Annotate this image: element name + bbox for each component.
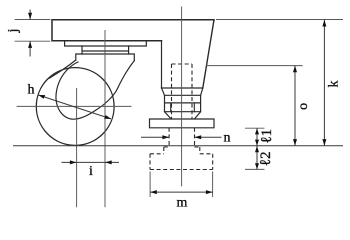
l1 dimension (256, 128, 258, 146)
raceway layer B (82, 46, 129, 54)
o extension line (206, 65, 303, 67)
boss step (164, 147, 200, 154)
hex nut flats (171, 103, 195, 112)
k extension line (216, 19, 343, 21)
foot pad (150, 154, 213, 170)
stud below flange (169, 128, 194, 147)
stem centerline (181, 7, 183, 187)
extension lines (15, 20, 343, 198)
wheel horizontal centerline (17, 105, 132, 107)
o dimension (294, 66, 296, 146)
svg-text:k: k (327, 81, 342, 88)
hex nut body (165, 95, 201, 111)
leg left edge (161, 41, 163, 88)
m extension lines (150, 172, 213, 198)
svg-text:j: j (6, 29, 21, 34)
h dimension diagonal arrow (38, 95, 111, 119)
swivel plate layer A (65, 41, 147, 46)
dimension lines with arrows (28, 10, 326, 195)
top mounting plate (52, 20, 214, 41)
l1 extension line (245, 127, 265, 129)
taper collar (165, 112, 201, 119)
stem collar trapezoid under leg (162, 88, 203, 95)
n dimension (141, 136, 222, 138)
fork left outer curve (49, 60, 76, 78)
svg-text:n: n (224, 131, 231, 146)
swivel axis centerline (104, 30, 106, 207)
threaded hole in leg (172, 64, 193, 119)
l2 dimension (256, 146, 258, 169)
j dimension (29, 10, 31, 57)
svg-text:m: m (177, 196, 188, 211)
ground line (13, 145, 343, 147)
centerlines (17, 7, 182, 208)
l2 extension line (245, 168, 265, 170)
fork spiral outline (56, 61, 134, 120)
leg right slanted edge (203, 20, 214, 88)
dashed hidden lines (150, 64, 213, 170)
i dimension (62, 161, 120, 163)
wheel circle (36, 68, 114, 146)
svg-text:ℓ1: ℓ1 (259, 129, 275, 144)
wheel vertical centerline (76, 88, 78, 207)
j extension lines (15, 20, 51, 42)
svg-text:o: o (296, 103, 311, 110)
m dimension (150, 191, 213, 193)
svg-text:ℓ2: ℓ2 (258, 152, 274, 167)
svg-text:i: i (89, 164, 93, 179)
svg-text:h: h (28, 83, 35, 98)
flange washer (150, 119, 215, 128)
leg bottom (162, 87, 203, 89)
k dimension (323, 20, 325, 146)
head crown layer C (76, 54, 135, 61)
